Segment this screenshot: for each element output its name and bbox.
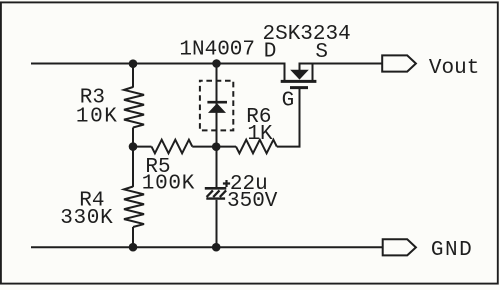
svg-text:1N4007: 1N4007 — [179, 38, 255, 61]
svg-text:G: G — [282, 89, 295, 112]
wire middle rail to R5 — [133, 146, 152, 148]
mosfet Q1 gate bar — [290, 86, 308, 89]
svg-text:1K: 1K — [247, 123, 273, 146]
svg-text:330K: 330K — [60, 207, 113, 230]
node middle rail / R3 R4 junction dot — [129, 142, 138, 151]
capacitor C1 hatched bottom plate — [206, 197, 225, 199]
wire R3 bottom lead to middle rail — [132, 128, 134, 147]
node bottom rail / R4 junction dot — [129, 243, 138, 252]
svg-text:D: D — [264, 40, 277, 63]
mosfet Q1 source arrow shaft — [299, 63, 301, 71]
svg-text:10K: 10K — [76, 105, 119, 128]
wire C1 bottom lead — [216, 200, 218, 247]
resistor R5 — [152, 140, 193, 154]
node top rail / R3 junction dot — [129, 59, 138, 68]
wire R5 to center junction — [192, 146, 216, 148]
wire R4 top lead — [132, 147, 134, 187]
wire source to Vout terminal — [300, 63, 383, 65]
svg-text:S: S — [315, 41, 328, 64]
node top rail / D1 junction dot — [212, 59, 221, 68]
svg-text:350V: 350V — [227, 190, 278, 213]
wire R6 to Q1 gate — [277, 88, 300, 147]
mosfet Q1 drain stub — [284, 63, 286, 82]
svg-text:100K: 100K — [142, 173, 195, 196]
wire R4 bottom lead — [132, 227, 134, 247]
mosfet Q1 channel bar — [281, 80, 317, 83]
wire C1 top lead — [216, 147, 218, 188]
mosfet Q1 source arrow head — [290, 70, 309, 80]
wire R3 top lead — [132, 64, 134, 88]
capacitor C1 polarity plus mark — [223, 180, 230, 187]
output terminal GND — [383, 239, 416, 255]
diode D1 anode triangle — [208, 103, 226, 113]
node middle rail / D1 C1 junction dot — [212, 142, 221, 151]
mosfet Q1 source stub — [312, 63, 314, 82]
wire center junction to R6 — [217, 146, 237, 148]
diode D1 cathode bar — [207, 101, 227, 104]
resistor R6 — [236, 140, 277, 154]
wire top rail (left edge to Q1 drain) — [31, 63, 286, 65]
resistor R4 — [124, 187, 144, 228]
wire bottom rail (GND rail) — [31, 246, 383, 248]
svg-text:GND: GND — [431, 239, 473, 262]
wire D1 branch (top rail to middle rail) — [216, 64, 218, 147]
svg-text:Vout: Vout — [429, 57, 479, 80]
dashed outline around D1 — [200, 81, 233, 131]
resistor R3 — [124, 87, 144, 128]
node bottom rail / C1 junction dot — [212, 243, 221, 252]
output terminal Vout — [382, 55, 416, 71]
capacitor C1 top plate — [205, 187, 227, 190]
